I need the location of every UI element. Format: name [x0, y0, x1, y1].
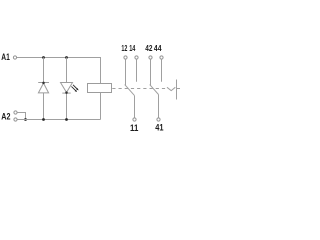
- wire diode branch vertical: [43, 58, 45, 120]
- armature symbol: [167, 80, 180, 100]
- terminal 14: [135, 56, 138, 59]
- terminal A2 lower: [14, 118, 17, 121]
- node junction A2-D1: [42, 118, 45, 121]
- wire A2 bottom rail: [17, 119, 100, 121]
- mechanical link dashed: [112, 88, 165, 90]
- LED V2: [61, 83, 79, 94]
- svg-text:14: 14: [129, 43, 135, 53]
- svg-text:42: 42: [145, 43, 152, 53]
- terminal 42: [149, 56, 152, 59]
- wire contact 12: [125, 59, 127, 85]
- contact arm CO1: [125, 85, 135, 96]
- terminal 11: [133, 118, 136, 121]
- wire contact 44: [161, 59, 163, 81]
- svg-text:A2: A2: [1, 112, 10, 122]
- wire A2 bridge: [17, 113, 25, 120]
- svg-text:41: 41: [155, 123, 163, 133]
- node junction A2 bridge: [24, 118, 27, 121]
- wire contact 42: [150, 59, 152, 85]
- wire contact 11: [134, 96, 136, 118]
- terminal A1: [13, 56, 16, 59]
- svg-text:12: 12: [121, 43, 127, 53]
- relay coil K1: [88, 84, 112, 93]
- wire coil to A2 rail: [100, 93, 102, 120]
- terminal 44: [160, 56, 163, 59]
- node junction A1-D1: [42, 56, 45, 59]
- terminal A2 upper: [14, 111, 17, 114]
- diode V1: [38, 82, 49, 93]
- wire LED branch vertical: [66, 58, 68, 120]
- node junction A2-LED: [65, 118, 68, 121]
- svg-text:11: 11: [130, 123, 138, 133]
- terminal 41: [157, 118, 160, 121]
- terminal 12: [124, 56, 127, 59]
- node junction A1-LED: [65, 56, 68, 59]
- wire contact 14: [136, 59, 138, 81]
- contact arm CO2: [150, 85, 159, 95]
- svg-text:A1: A1: [1, 52, 10, 62]
- wire contact 41: [158, 95, 160, 118]
- svg-text:44: 44: [154, 43, 162, 53]
- wire A1 top rail: [17, 58, 101, 84]
